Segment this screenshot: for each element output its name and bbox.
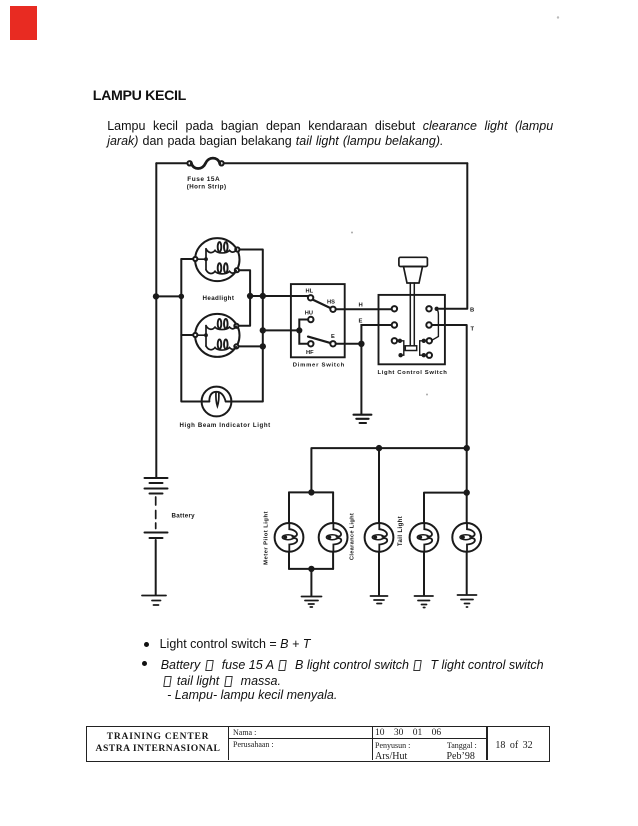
svg-text:E: E [331, 334, 335, 340]
svg-text:HU: HU [305, 311, 313, 317]
svg-text:Clearance Light: Clearance Light [350, 513, 356, 560]
svg-text:HL: HL [306, 289, 314, 295]
svg-text:T: T [471, 326, 475, 332]
svg-text:E: E [359, 319, 363, 325]
svg-text:Light Control Switch: Light Control Switch [378, 370, 448, 376]
svg-text:(Horn Strip): (Horn Strip) [187, 183, 227, 190]
svg-text:Headlight: Headlight [203, 295, 235, 302]
svg-text:Fuse 15A: Fuse 15A [187, 176, 220, 183]
svg-text:B: B [470, 307, 474, 313]
svg-text:High Beam Indicator Light: High Beam Indicator Light [180, 422, 271, 429]
svg-text:HS: HS [327, 300, 335, 306]
svg-text:Meter Pilot Light: Meter Pilot Light [264, 511, 270, 565]
svg-text:H: H [359, 303, 363, 309]
svg-text:HF: HF [306, 350, 314, 356]
svg-text:Dimmer Switch: Dimmer Switch [293, 363, 345, 369]
svg-text:Tail Light: Tail Light [398, 516, 404, 546]
svg-text:Battery: Battery [172, 513, 196, 520]
